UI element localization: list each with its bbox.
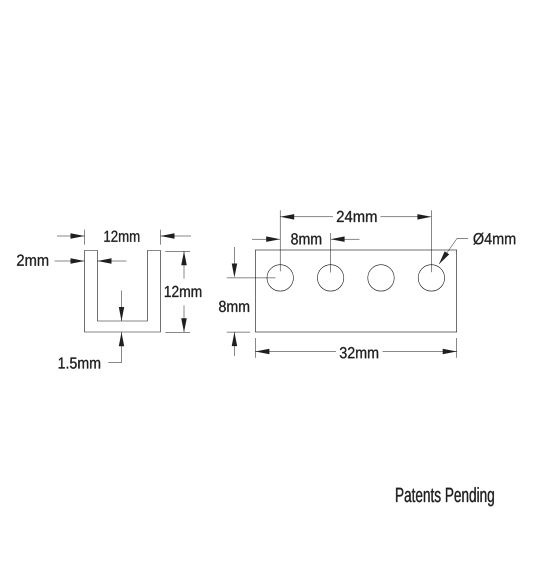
dimension 12mm right: label [165, 286, 201, 297]
dimension 12mm top: label [104, 231, 139, 242]
hole 4 extension line vertical [430, 210, 432, 272]
plate outline [255, 250, 456, 332]
dimension 8mm left: bottom extension tick [227, 331, 250, 333]
dimension 2mm: right arrow [98, 260, 127, 262]
dimension 1.5mm: outer up arrow [121, 332, 123, 362]
hole 1 extension line vertical [279, 210, 281, 271]
U-channel cross-section outline [85, 251, 161, 333]
dimension 12mm top: extension line right [160, 230, 162, 245]
dimension 1.5mm: label [59, 358, 100, 369]
dimension 24mm: right segment and arrow [381, 216, 432, 218]
dimension 2mm: label [17, 255, 48, 266]
dimension 8mm left: label [219, 301, 249, 312]
dimension 12mm right: extension line top [165, 250, 190, 252]
dimension 32mm: extension line right [456, 338, 458, 358]
hole 1 [267, 265, 293, 291]
dimension 8mm top: left arrow [252, 238, 280, 240]
dimension 1.5mm: inner down arrow [121, 291, 123, 322]
patents pending note [396, 487, 494, 506]
hole 2 [317, 265, 343, 291]
dimension 32mm: extension line left [254, 338, 256, 358]
dimension 24mm: left segment and arrow [280, 216, 333, 218]
hole 2 extension line vertical [330, 233, 332, 273]
dimension 32mm: label [340, 347, 378, 358]
hole 3 [368, 265, 394, 291]
dimension 8mm top: right arrow [331, 238, 360, 240]
dimension 32mm: left segment and arrow [255, 351, 336, 353]
dimension 8mm left: up arrow [233, 332, 235, 356]
dimension 12mm right: extension line bottom [165, 331, 190, 333]
dimension 12mm top: right arrow [161, 235, 192, 237]
dimension 2mm: left arrow [55, 260, 85, 262]
dimension 12mm top: extension line left [84, 230, 86, 245]
dimension 32mm: right segment and arrow [383, 351, 457, 353]
label diameter 4mm: text [473, 233, 515, 245]
hole 1 center line [227, 277, 276, 279]
label diameter 4mm: leader [457, 237, 468, 239]
dimension 8mm left: down arrow [233, 247, 235, 264]
hole 4 [418, 265, 444, 291]
dimension 8mm top: label [291, 233, 321, 244]
dimension 12mm top: left arrow [57, 235, 85, 237]
dimension 1.5mm: leader [108, 362, 121, 364]
dimension 24mm: label [337, 211, 377, 222]
dimension 12mm right: down arrow [183, 306, 185, 333]
dimension 12mm right: up arrow [183, 251, 185, 278]
